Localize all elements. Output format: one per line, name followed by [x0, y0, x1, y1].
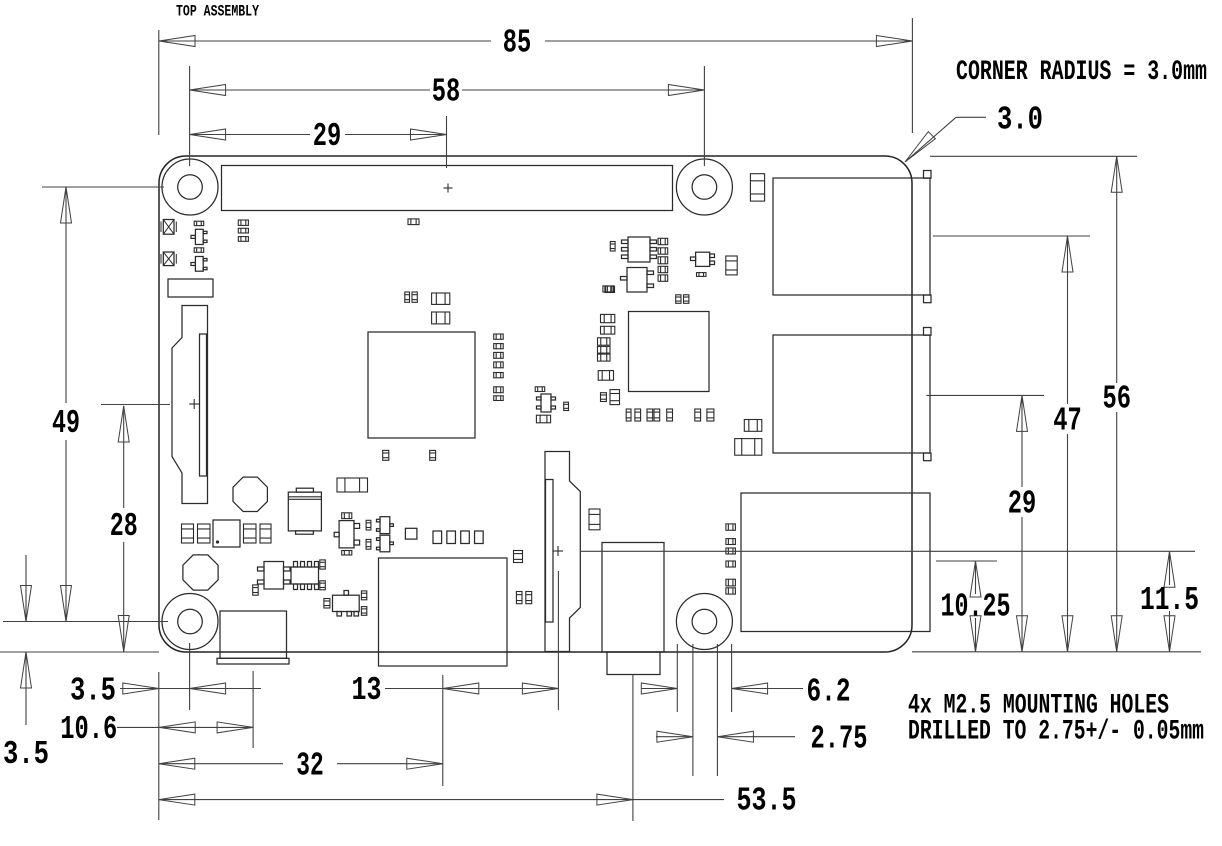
svg-text:3.5: 3.5 [3, 736, 49, 773]
op-amp U7 (SOIC-8) [291, 560, 325, 590]
transistor Q6 (SOT-23) left of HDMI [334, 513, 359, 555]
Ethernet jack J1 (bottom right) [741, 493, 930, 632]
mounting hole H4 bottom-right (6.2mm pad, 2.75mm drill) [676, 594, 732, 650]
regulator U6 (SOT-23-5) [253, 562, 290, 596]
capacitor C7 [432, 293, 450, 304]
dim 10.25 extension line [936, 560, 997, 562]
mounting hole H1 top-left (6.2mm pad, 2.75mm drill) [162, 159, 218, 215]
board top ext right [930, 155, 1137, 157]
DSI centerline [101, 404, 170, 406]
mounting holes note line 2 [908, 716, 1204, 747]
PCB board outline (85x56mm, corner radius 3.0mm) [159, 156, 912, 652]
CSI centerline (11.5mm) [581, 550, 1195, 552]
svg-text:29: 29 [313, 118, 342, 155]
capacitor pair left of audio [516, 592, 531, 604]
dimension 49 (hole to hole vertical) [52, 187, 80, 622]
capacitor C17 [750, 174, 764, 201]
regulator U4 (SOT-23-5) [535, 387, 568, 423]
test pad square [405, 528, 417, 539]
ext lines 2.75 drill [693, 644, 718, 776]
dim 58 extension line left [189, 66, 191, 166]
HDMI connector J3 (bottom) [379, 558, 508, 666]
dimension 29 (hole to header center) [190, 118, 447, 155]
hole centerline ext bottom-left [3, 621, 168, 623]
dimension 13 (HDMI to CSI) [352, 672, 559, 709]
capacitor column left of U2 [598, 286, 620, 405]
dimension 53.5 (audio jack center) [159, 783, 797, 820]
SPI flash chip U3 [213, 520, 240, 547]
component row below U2 [626, 409, 714, 421]
GPIO 40-pin header J8 [222, 166, 673, 211]
decoupling capacitors right of SoC [494, 334, 504, 401]
audio/video jack J4 (bottom) [602, 543, 664, 675]
capacitor C20 [514, 551, 523, 563]
capacitor bank near flash [182, 524, 272, 543]
svg-text:10.6: 10.6 [60, 711, 117, 748]
ext line board left edge (bottom) [158, 672, 160, 820]
USB connector USB2 (middle right) [773, 328, 931, 461]
status LED D2 [161, 252, 176, 266]
dimension 2.75 (drill diameter) [656, 721, 868, 758]
svg-text:29: 29 [1008, 486, 1037, 523]
dimension 10.25 (Ethernet center) [941, 561, 1011, 652]
inductor L1 (octagon) [233, 477, 267, 511]
mounting hole H2 top-right (6.2mm pad, 2.75mm drill) [676, 159, 732, 215]
svg-text:47: 47 [1053, 403, 1082, 440]
ext line HDMI center [442, 675, 444, 786]
transistor Q3 (SOT-89) [605, 268, 654, 293]
dimension 10.6 (power usb center) [60, 711, 253, 748]
capacitor group C3-C5 [238, 220, 248, 241]
capacitor C18 [744, 420, 762, 432]
ext line audio center [632, 675, 634, 821]
TOP ASSEMBLY label [176, 3, 260, 21]
capacitor C2 [337, 478, 368, 492]
transistor Q4 (SOT-23) [691, 252, 715, 276]
ext lines 6.2 pad [677, 644, 731, 712]
svg-text:53.5: 53.5 [737, 783, 797, 820]
svg-text:6.2: 6.2 [807, 674, 851, 711]
dim 28 extension line [101, 404, 160, 406]
capacitor C8 [432, 312, 450, 324]
ext line power usb center [252, 671, 254, 748]
svg-text:TOP ASSEMBLY: TOP ASSEMBLY [176, 3, 260, 21]
capacitor pair below SoC [383, 450, 436, 460]
svg-text:56: 56 [1102, 381, 1131, 418]
dimension 56 (board height) [1102, 156, 1131, 652]
SoC U1 (BCM2837) [368, 332, 475, 438]
svg-text:3.0: 3.0 [997, 102, 1043, 139]
transistor Q7 (SOT-23) [377, 517, 394, 534]
dimension 32 (HDMI center) [159, 747, 443, 784]
corner radius note [956, 57, 1207, 88]
micro-USB power connector J2 (bottom left) [217, 611, 289, 664]
dimension 58 (hole spacing) [190, 74, 705, 111]
svg-text:58: 58 [432, 74, 461, 111]
dimension 3.5 (left, hole to bottom) [3, 555, 49, 773]
board bottom ext right [912, 651, 1201, 653]
svg-text:49: 49 [52, 405, 80, 442]
dim 29 extension line [446, 116, 448, 168]
capacitor column C10-C14 [658, 238, 668, 281]
dimension 29 (USB2 center) [1008, 395, 1037, 651]
svg-text:32: 32 [296, 747, 324, 784]
ext line hole center x=190 [189, 643, 191, 710]
svg-text:11.5: 11.5 [1140, 582, 1199, 619]
hole centerline ext top-left [42, 186, 164, 188]
dimension 6.2 (pad diameter) [641, 674, 851, 711]
inductor L2 (octagon) [183, 555, 218, 590]
capacitor pair mid [366, 520, 371, 549]
dimension 11.5 (CSI center) [1140, 551, 1199, 652]
dim 29 extension line right [926, 394, 1044, 396]
dim 47 extension line [933, 235, 1090, 237]
op-amp U5 (SOIC) [610, 237, 656, 262]
capacitor C19 [735, 439, 762, 456]
svg-text:85: 85 [503, 25, 532, 62]
dim 58 extension line right [703, 66, 705, 166]
dim 85 extension line left [158, 30, 160, 135]
status LED D1 [161, 220, 176, 235]
CSI camera connector J6 (bottom center) [545, 452, 580, 652]
dimension 47 (USB1 center) [1053, 236, 1082, 652]
transistor Q2 (SOT-23) [191, 248, 207, 271]
mounting hole H3 bottom-left (6.2mm pad, 2.75mm drill) [162, 594, 218, 650]
dimension 3.5 (board edge to hole) [70, 673, 261, 710]
DSI silkscreen label box [168, 279, 213, 297]
electrolytic capacitor C1 [288, 488, 321, 534]
svg-text:28: 28 [110, 508, 138, 545]
pad row of 4 squares [433, 531, 483, 544]
transistor Q5 (SOT-23) [324, 591, 367, 617]
ext line CSI center [557, 571, 559, 710]
svg-text:DRILLED TO 2.75+/- 0.05mm: DRILLED TO 2.75+/- 0.05mm [908, 716, 1204, 747]
svg-text:2.75: 2.75 [811, 721, 868, 758]
dimension 28 (DSI center to board bottom) [110, 406, 138, 652]
transistor Q8 (SOT-23) [377, 535, 394, 552]
board bottom ext left [0, 651, 159, 653]
resistor column left of Ethernet [726, 524, 736, 594]
leader 3.0 with arrow [905, 102, 1043, 162]
svg-text:CORNER RADIUS = 3.0mm: CORNER RADIUS = 3.0mm [956, 57, 1207, 88]
transistor Q1 (SOT-23) [191, 221, 207, 244]
DSI display connector J5 (left edge) [172, 306, 208, 504]
capacitor pair C6 [405, 292, 418, 302]
dimension 85 (board width) [159, 25, 912, 62]
USB connector USB1 (top right) [773, 171, 931, 303]
svg-text:13: 13 [352, 672, 382, 709]
capacitor pair C16 [676, 295, 689, 304]
mounting holes note line 1 [908, 691, 1169, 722]
dim 85 extension line right [911, 18, 913, 133]
svg-text:3.5: 3.5 [70, 673, 116, 710]
capacitor right of CSI [589, 509, 600, 530]
capacitor C15 [726, 256, 737, 275]
resistor R1 [408, 219, 419, 225]
LAN/USB hub chip U2 [629, 312, 710, 392]
svg-text:10.25: 10.25 [941, 589, 1011, 626]
